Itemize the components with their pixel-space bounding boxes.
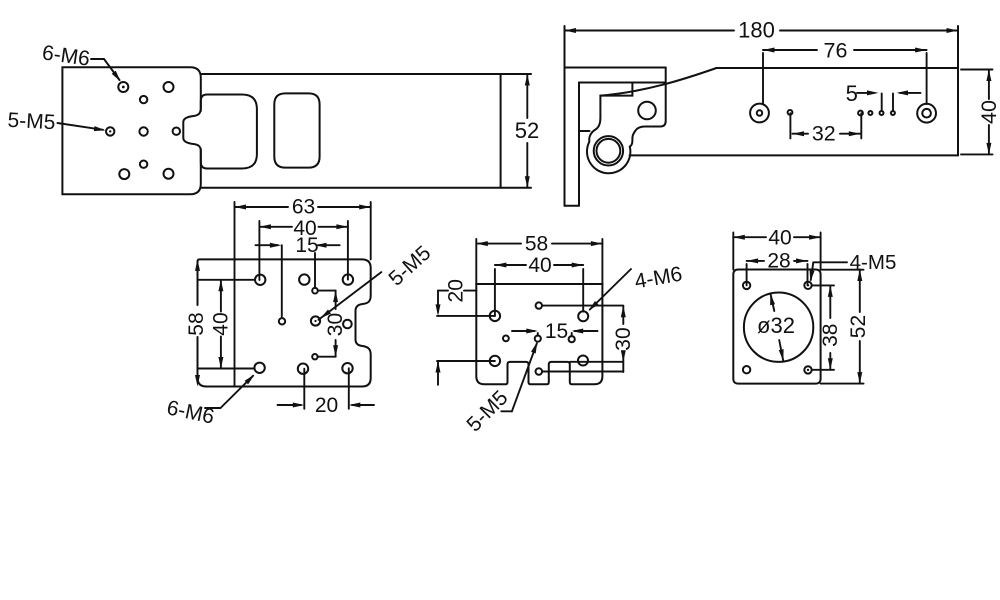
svg-text:20: 20: [315, 394, 338, 417]
svg-text:40: 40: [528, 254, 551, 277]
svg-text:5: 5: [846, 81, 858, 106]
svg-text:15: 15: [545, 320, 568, 343]
svg-text:76: 76: [824, 39, 848, 63]
svg-text:28: 28: [767, 250, 790, 273]
svg-text:5-M5: 5-M5: [7, 109, 56, 134]
svg-text:180: 180: [738, 18, 775, 43]
svg-text:40: 40: [768, 227, 791, 250]
svg-text:40: 40: [977, 100, 1000, 124]
svg-text:30: 30: [324, 313, 347, 336]
svg-text:30: 30: [612, 327, 635, 350]
svg-text:52: 52: [847, 315, 870, 338]
svg-text:52: 52: [515, 118, 539, 143]
svg-text:63: 63: [292, 196, 315, 219]
svg-text:38: 38: [819, 324, 842, 347]
svg-text:58: 58: [185, 312, 208, 335]
svg-text:4-M5: 4-M5: [850, 251, 897, 274]
svg-text:58: 58: [525, 233, 548, 256]
svg-text:ø32: ø32: [757, 313, 795, 338]
svg-text:32: 32: [812, 122, 836, 146]
svg-text:40: 40: [210, 312, 233, 335]
